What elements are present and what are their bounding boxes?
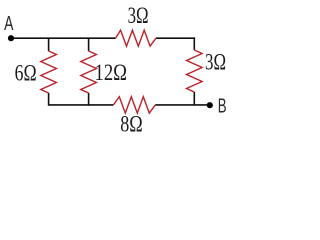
- wire top rail right (3ohm resistor to top-right corner): [156, 37, 195, 39]
- svg-text:3Ω: 3Ω: [128, 3, 149, 29]
- wire right vertical top stub: [193, 37, 195, 50]
- wire 12ohm top stub: [88, 38, 90, 51]
- wire 12ohm bottom stub: [88, 93, 90, 106]
- resistor 3ohm right zigzag: [187, 50, 203, 92]
- svg-text:A: A: [4, 13, 14, 35]
- resistor 12ohm zigzag: [81, 51, 97, 93]
- svg-text:8Ω: 8Ω: [120, 112, 143, 138]
- svg-text:12Ω: 12Ω: [95, 60, 128, 86]
- wire 6ohm top stub: [48, 38, 50, 51]
- resistor 3ohm top zigzag: [116, 30, 157, 46]
- resistor 6ohm zigzag: [41, 51, 57, 93]
- wire bottom rail left: [49, 104, 114, 106]
- node A terminal dot: [8, 35, 14, 41]
- svg-text:6Ω: 6Ω: [15, 61, 37, 87]
- node B terminal dot: [207, 102, 213, 108]
- wire bottom rail right (8ohm to node B): [155, 104, 210, 106]
- resistor 8ohm zigzag: [113, 97, 155, 113]
- svg-text:3Ω: 3Ω: [205, 50, 226, 76]
- wire top rail left (A to 3ohm resistor): [11, 37, 116, 39]
- wire right vertical bottom stub: [193, 92, 195, 105]
- wire 6ohm bottom stub: [48, 93, 50, 106]
- svg-text:B: B: [218, 96, 227, 118]
